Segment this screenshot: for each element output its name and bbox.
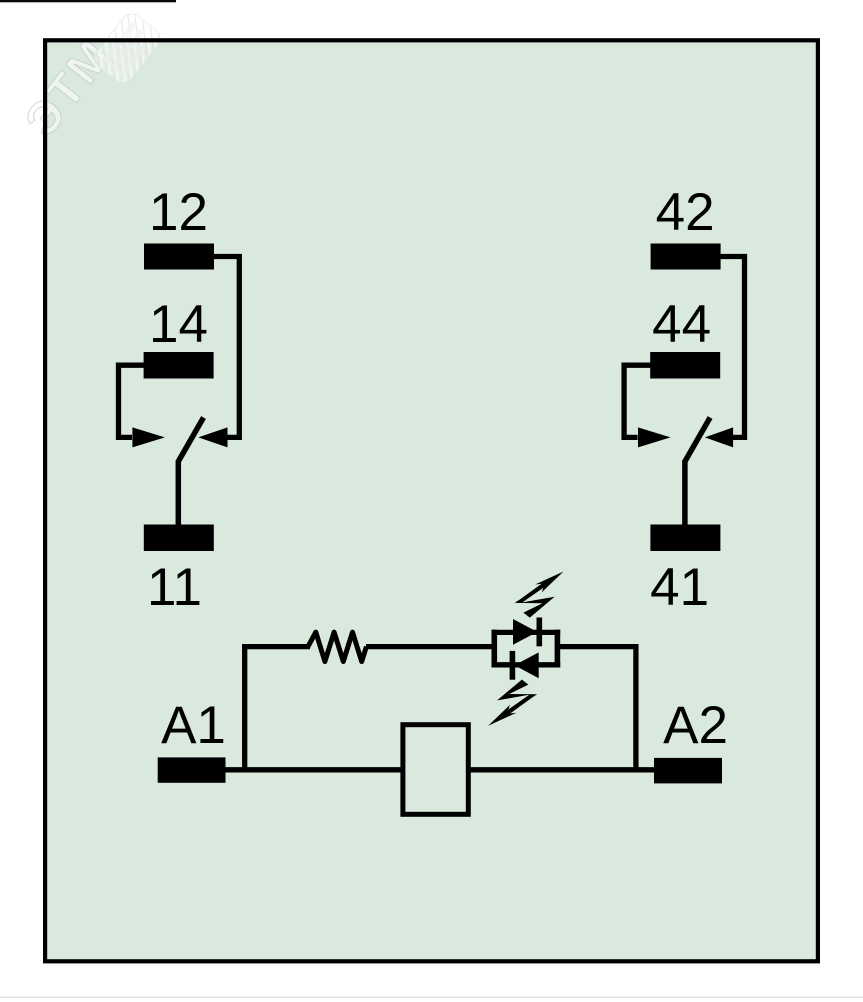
wire A1 to coil bbox=[224, 767, 402, 772]
terminal A2 bbox=[654, 758, 722, 784]
terminal 11 bbox=[144, 525, 214, 552]
wire coil to A2 bbox=[469, 767, 656, 772]
arrow on 12 wire (pointing left) bbox=[198, 427, 227, 447]
LED D2 (bottom, anode right) bbox=[512, 651, 538, 680]
wire from 14 to contact (left side) bbox=[119, 365, 147, 437]
svg-text:12: 12 bbox=[149, 183, 208, 242]
LED D1 emission arrow bbox=[515, 572, 564, 618]
label 42 bbox=[656, 183, 715, 242]
wire resistor to LED module bbox=[366, 644, 494, 649]
wire from 42 to contact (right side) bbox=[719, 257, 745, 438]
contact blade of pole 41 bbox=[685, 418, 710, 527]
svg-text:A2: A2 bbox=[663, 696, 728, 755]
svg-text:11: 11 bbox=[147, 558, 202, 617]
svg-text:42: 42 bbox=[656, 183, 715, 242]
label A2 bbox=[663, 696, 728, 755]
label 11 bbox=[147, 558, 202, 617]
label 41 bbox=[650, 558, 709, 617]
contact blade of pole 11 bbox=[178, 418, 203, 527]
svg-text:A1: A1 bbox=[161, 696, 226, 755]
terminal 44 bbox=[650, 352, 720, 379]
resistor R1 bbox=[308, 632, 366, 661]
bottom faint rule bbox=[0, 997, 863, 999]
arrow on 14 wire (pointing right) bbox=[132, 427, 165, 447]
label 14 bbox=[149, 295, 208, 354]
terminal 14 bbox=[144, 352, 214, 379]
svg-text:41: 41 bbox=[650, 558, 709, 617]
label 44 bbox=[652, 295, 711, 354]
LED module frame bbox=[492, 630, 561, 668]
watermark ETM logo bbox=[14, 0, 164, 157]
LED D1 (top, anode left) bbox=[513, 618, 539, 647]
label 12 bbox=[149, 183, 208, 242]
terminal 42 bbox=[651, 244, 721, 270]
svg-text:44: 44 bbox=[652, 295, 711, 354]
svg-text:14: 14 bbox=[149, 295, 208, 354]
terminal 41 bbox=[650, 525, 720, 552]
LED D2 emission arrow bbox=[488, 680, 537, 726]
wire from 12 to contact (right side) bbox=[212, 257, 239, 438]
top-left black bar bbox=[0, 0, 176, 2]
wire LED module to right branch bbox=[557, 647, 636, 770]
wire from 44 to contact (left side) bbox=[624, 365, 653, 437]
arrow on 44 wire (pointing right) bbox=[638, 427, 671, 447]
arrow on 42 wire (pointing left) bbox=[705, 427, 733, 447]
branch wire left (junction at A1 line) bbox=[245, 647, 310, 770]
terminal A1 bbox=[158, 757, 226, 782]
coil K1 bbox=[403, 725, 468, 815]
terminal 12 bbox=[144, 244, 214, 270]
label A1 bbox=[161, 696, 226, 755]
